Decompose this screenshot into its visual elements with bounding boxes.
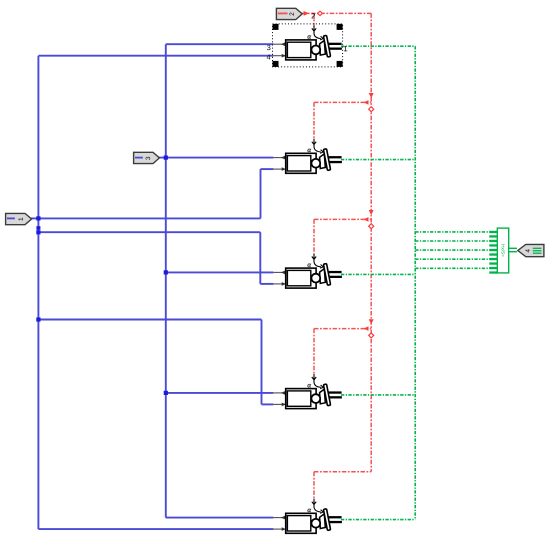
pin label 3 <box>267 45 270 50</box>
node: net B branch pump3 <box>164 270 168 274</box>
mux tooth 4 <box>489 244 497 246</box>
tag/flag 1 <box>6 213 32 224</box>
node: tag2 branch diamond <box>318 11 323 15</box>
node: red diamond below branch 3 <box>369 224 374 229</box>
tag/flag 3 <box>134 152 160 163</box>
wire: net A to pump1 pin B <box>38 55 273 57</box>
wire: net A main vertical <box>37 56 39 529</box>
wire: net B main vertical <box>165 44 167 517</box>
wire: net A into pump5 pin B <box>38 528 273 530</box>
wire: red branch to pump5 <box>314 471 371 473</box>
wire: pump2 output <box>341 159 415 161</box>
wire: red branch to pump3 <box>314 218 371 220</box>
mux tooth 5 <box>489 249 497 251</box>
selection dotted frame <box>273 24 343 67</box>
node: red arrow left branch 4 <box>364 326 369 331</box>
wire: net B to pump3 pin A <box>166 271 274 273</box>
selection handle top-right <box>337 24 343 30</box>
mux body <box>497 228 508 273</box>
wire: mux output bus lower <box>509 251 517 253</box>
wire: net B to pump5 pin A <box>166 517 274 519</box>
mux tooth 3 <box>489 240 497 242</box>
mux tooth 10 <box>489 271 497 273</box>
pump M5 <box>273 499 342 534</box>
wire: red drop into pump4 <box>313 329 315 374</box>
mux tooth 9 <box>489 267 497 269</box>
tag/flag 2 <box>276 8 302 19</box>
wire: red main vertical <box>370 13 372 471</box>
selection handle top-left <box>273 24 279 30</box>
node: red diamond below branch 4 <box>369 333 374 338</box>
wire: net B to pump1 pin A <box>166 43 274 45</box>
pin label 1 <box>344 46 347 51</box>
node: tag1 junction <box>36 216 40 220</box>
wire: mux input 7 <box>415 258 489 260</box>
wire: tag3 stub and net B to pump2 pin A <box>159 157 274 159</box>
wire: mux output bus upper <box>509 247 517 249</box>
wire: net A horizontal to pump3 <box>38 231 260 233</box>
wire: net A horizontal to pump4 <box>38 319 261 321</box>
mux tooth 1 <box>489 231 497 233</box>
wire: net A into pump2 pin B <box>261 168 274 170</box>
wire: mux input 5 <box>415 249 489 251</box>
wire: mux input 3 <box>415 240 489 242</box>
node: net A branch upper <box>36 226 40 230</box>
wire: net A riser to pump2 pin B <box>260 169 262 218</box>
wire: red drop into pump1 <box>313 13 315 25</box>
tag/flag 4 <box>518 244 544 256</box>
pin label 2 <box>312 13 315 18</box>
wire: net A horizontal to pump2 <box>38 217 260 219</box>
wire: tag1 stub <box>31 217 39 219</box>
wire: tag2 output run <box>302 12 371 14</box>
wire: mux input 1 <box>415 231 489 233</box>
node: net A branch lower <box>36 230 40 234</box>
node: net A branch pump4 <box>36 317 40 321</box>
pump M2 <box>273 139 342 174</box>
node: tag2 output arrow <box>304 11 310 16</box>
pin label 4 <box>267 55 271 60</box>
selection handle bottom-left <box>273 61 279 67</box>
wire: net A into pump4 pin B <box>262 403 274 405</box>
wire: net B to pump4 pin A <box>166 392 274 394</box>
wire: net A into pump3 pin B <box>260 283 273 285</box>
wire: mux input 9 <box>415 267 489 269</box>
mux label <box>501 245 504 257</box>
mux tooth 7 <box>489 258 497 260</box>
wire: red drop into pump5 <box>313 472 315 499</box>
wire: red drop into pump3 <box>313 219 315 253</box>
node: net B branch pump4 <box>164 391 168 395</box>
pump M1 (selected) <box>273 25 342 60</box>
wire: net A dropper to pump3 pin B <box>259 232 261 284</box>
node: tag3 junction <box>164 156 168 160</box>
wire: pump4 output <box>341 394 415 396</box>
wire: pump5 output <box>341 519 415 521</box>
mux tooth 8 <box>489 262 497 264</box>
selection handle bottom-right <box>337 61 343 67</box>
wire: red drop into pump2 <box>313 102 315 138</box>
node: red arrow above branch 2 <box>369 93 374 98</box>
wire: red branch to pump2 <box>314 101 371 103</box>
pump M3 <box>273 254 342 289</box>
pump M4 <box>273 374 342 409</box>
wire: pump1 output <box>341 45 415 47</box>
node: red arrow above branch 4 <box>369 319 374 324</box>
node: red arrow left branch 2 <box>364 100 369 105</box>
wire: net A dropper to pump4 pin B <box>261 320 263 405</box>
mux tooth 6 <box>489 253 497 255</box>
node: red arrow above branch 3 <box>369 210 374 215</box>
mux tooth 2 <box>489 235 497 237</box>
node: red diamond below branch 2 <box>369 107 374 112</box>
wire: red branch to pump4 <box>314 328 371 330</box>
wire: pump3 output <box>341 273 415 275</box>
wire: green vertical track <box>414 46 416 519</box>
node: red arrow left branch 3 <box>364 217 369 222</box>
